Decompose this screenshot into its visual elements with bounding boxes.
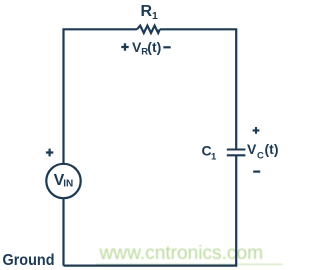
svg-text:1: 1	[211, 151, 217, 162]
svg-text:V: V	[247, 141, 257, 157]
resistor R1	[137, 26, 160, 33]
svg-text:(t): (t)	[147, 39, 161, 55]
node + (capacitor top polarity)	[253, 127, 260, 134]
svg-text:www.cntronics.com: www.cntronics.com	[98, 243, 263, 264]
wire: top-left + left upper segment	[64, 29, 138, 164]
watermark www.cntronics.com	[96, 243, 283, 264]
node - (capacitor bottom polarity)	[253, 171, 260, 173]
capacitor C1	[227, 150, 246, 156]
svg-text:R: R	[141, 3, 153, 20]
voltage source VIN	[46, 164, 80, 198]
wire: right lower + bottom segment	[64, 155, 237, 265]
node + (source top polarity)	[46, 149, 53, 157]
svg-text:IN: IN	[63, 178, 73, 189]
label C1	[202, 142, 218, 162]
label + VR(t) -	[121, 39, 170, 57]
svg-text:(t): (t)	[265, 141, 279, 157]
svg-text:Ground: Ground	[3, 252, 55, 269]
label R1	[141, 3, 159, 22]
label VC(t)	[247, 141, 279, 161]
svg-text:C: C	[257, 150, 264, 161]
wire: top-right + right upper segment	[160, 29, 236, 148]
wire: left lower segment	[62, 198, 64, 265]
svg-text:1: 1	[152, 10, 158, 22]
